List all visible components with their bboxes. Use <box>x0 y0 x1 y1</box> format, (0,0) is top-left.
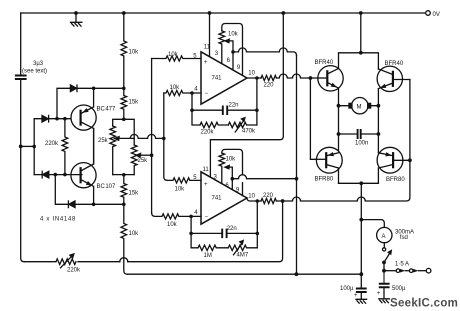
wire left wiper to U1 pin4 vertical <box>164 93 168 180</box>
svg-text:11: 11 <box>204 44 211 50</box>
fuse and connectors 1.5A <box>384 270 396 272</box>
node chain junction <box>122 87 126 91</box>
svg-text:+: + <box>354 293 358 299</box>
wire feedback 220k bottom line <box>24 201 282 262</box>
ground right <box>379 299 390 303</box>
node U1 pin4 junction <box>190 91 194 95</box>
ammeter A <box>377 227 392 242</box>
transistor Q6 BFR80 right <box>377 147 403 173</box>
wire negative rail bottom <box>127 273 361 275</box>
wire bias column vertical <box>33 119 35 175</box>
potentiometer VR1 25k left <box>110 126 116 175</box>
node feedback junctions <box>255 76 259 112</box>
svg-text:−: − <box>205 91 209 97</box>
wire U1 pin11 supply <box>209 13 211 57</box>
resistor R1M U2 feedback <box>198 245 228 250</box>
wire pot bracket bottom <box>113 174 135 176</box>
wire ammeter branch <box>361 220 384 228</box>
node emitter-diode junction <box>92 87 96 91</box>
wire left rail upper <box>20 13 22 74</box>
svg-text:220: 220 <box>264 83 275 89</box>
node right wiper junction <box>150 153 154 157</box>
svg-text:100µ: 100µ <box>340 286 354 292</box>
svg-text:100n: 100n <box>355 140 368 146</box>
resistor R220k U1 feedback <box>200 122 228 127</box>
terminal output <box>426 268 431 273</box>
svg-text:4 x IN4148: 4 x IN4148 <box>40 216 76 222</box>
wire U1 feedback left vertical <box>192 93 200 125</box>
svg-text:−: − <box>205 215 209 221</box>
capacitor C4 100n motor <box>339 133 379 135</box>
wire left rail lower <box>21 80 25 262</box>
node bridge left base junction <box>309 76 313 80</box>
wire U1 wiper line to V- <box>233 48 297 56</box>
wire left pot wiper line <box>130 134 164 138</box>
wire V- vertical <box>296 55 298 274</box>
svg-text:11: 11 <box>203 167 210 173</box>
svg-text:(see text): (see text) <box>22 68 47 74</box>
diode D1 <box>42 115 48 122</box>
resistor R220k bias <box>62 119 68 175</box>
node bridge top junction <box>359 51 363 55</box>
resistor R10k U2 -input <box>152 213 201 219</box>
node bridge bottom junction <box>359 181 363 185</box>
resistor R15k lower <box>121 175 127 205</box>
svg-text:BC 107: BC 107 <box>97 184 117 190</box>
wire U2 offset wiper <box>229 167 232 179</box>
wire U2 pin6 <box>231 179 233 190</box>
node ammeter branch junction <box>359 218 363 222</box>
capacitor C6 500u <box>380 271 389 288</box>
svg-text:9: 9 <box>237 65 241 71</box>
svg-text:10k: 10k <box>129 50 140 56</box>
svg-text:10k: 10k <box>226 157 237 163</box>
svg-text:10k: 10k <box>228 32 239 38</box>
ground top <box>71 13 82 26</box>
node top rail junction dots <box>74 11 363 15</box>
svg-text:220: 220 <box>263 193 274 199</box>
node U1 feedback mid junction <box>190 108 194 112</box>
potentiometer VR2 25k right <box>131 145 137 175</box>
node negative rail junction <box>295 272 299 276</box>
node left wiper junction <box>162 137 166 141</box>
wire U2 feedback right vertical <box>256 201 258 248</box>
svg-text:3µ3: 3µ3 <box>33 61 44 67</box>
wire pot bracket top <box>113 119 135 145</box>
node bias column junction <box>32 145 36 149</box>
svg-text:741: 741 <box>212 196 223 202</box>
svg-text:fsd: fsd <box>400 235 408 241</box>
node U2 feedback junctions <box>255 199 259 235</box>
wire hop over chain <box>120 258 128 262</box>
wire BC107 base row <box>34 174 82 176</box>
wire bridge bottom to supply <box>360 183 362 287</box>
diode D4 <box>69 201 75 208</box>
wire to chain junction <box>94 203 124 205</box>
node cap rail dots <box>337 132 381 136</box>
wire right wiper to U1 pin5 vertical <box>151 59 153 213</box>
node motor rail dots <box>337 104 381 108</box>
svg-text:3: 3 <box>214 175 218 181</box>
potentiometer VR5 10k offset U1 <box>222 24 243 75</box>
terminal 0V <box>426 11 431 16</box>
svg-text:BFR40: BFR40 <box>385 61 404 67</box>
motor M <box>352 98 368 114</box>
wire U1 offset wiper <box>229 41 233 52</box>
node wiper to V- junction <box>295 177 299 181</box>
svg-text:741: 741 <box>212 76 223 82</box>
svg-text:BC 477: BC 477 <box>97 107 117 113</box>
diode D3 <box>43 171 49 178</box>
wire to divider chain <box>94 87 124 89</box>
svg-text:0V: 0V <box>433 12 440 18</box>
wire D4 to emitter node <box>75 203 94 205</box>
resistor R220 U1 output <box>261 75 276 80</box>
ground left <box>356 299 367 303</box>
svg-text:4M7: 4M7 <box>237 253 249 259</box>
resistor R10k chain top <box>121 13 127 88</box>
wire emitter diode branch <box>55 175 68 205</box>
node negative rail right junction <box>359 272 363 276</box>
capacitor C2 22n U1 <box>192 109 257 111</box>
svg-text:10k: 10k <box>168 52 179 58</box>
node bracket top junction <box>122 118 126 122</box>
node chain emitter junction <box>122 203 126 207</box>
wire U1 output row <box>247 74 318 78</box>
wire left rail mid <box>338 106 340 153</box>
svg-text:3: 3 <box>215 51 219 57</box>
wire U1 feedback right vertical <box>256 78 258 125</box>
potentiometer VR3 220k <box>56 255 76 267</box>
wire D2 to emitter node <box>77 87 94 89</box>
svg-text:470k: 470k <box>242 129 256 135</box>
resistor R15k upper <box>121 88 127 119</box>
capacitor C3 22n U2 <box>191 232 257 234</box>
svg-text:220k: 220k <box>201 129 215 135</box>
wire BC477 base row <box>34 118 82 120</box>
svg-text:1·5 A: 1·5 A <box>395 261 409 267</box>
svg-text:+: + <box>204 182 208 188</box>
op-amp U2 741 <box>201 172 247 224</box>
node chain top dot <box>122 11 126 15</box>
wire bridge top bracket <box>339 53 379 69</box>
wire left bases vertical <box>310 78 316 159</box>
svg-text:6: 6 <box>227 58 231 64</box>
svg-text:500µ: 500µ <box>392 286 406 292</box>
wire rail to bias column <box>21 145 35 147</box>
potentiometer VR7 10k offset U2 <box>222 149 243 195</box>
svg-text:220k: 220k <box>45 141 59 147</box>
transistor Q3 BFR40 left <box>318 66 343 91</box>
node switch junction <box>382 269 386 273</box>
svg-text:15k: 15k <box>129 191 140 197</box>
wire U2 wiper line to V- <box>232 175 296 179</box>
wire U1 pin6 <box>232 52 234 69</box>
svg-text:220k: 220k <box>67 268 81 274</box>
resistor R10k U1 -input <box>164 90 201 95</box>
svg-text:10: 10 <box>248 193 255 199</box>
node bracket bottom junction <box>122 173 126 177</box>
svg-text:A: A <box>382 234 386 240</box>
node U2 wiper junction <box>231 177 235 181</box>
op-amp U1 741 <box>201 52 247 104</box>
wire right rail mid <box>377 106 379 153</box>
potentiometer VR6 4M7 <box>228 243 257 255</box>
svg-text:25k: 25k <box>98 138 109 144</box>
svg-text:BFR80: BFR80 <box>315 176 334 182</box>
node left rail junction <box>19 145 23 149</box>
node U2 output to 220k branch <box>281 199 285 203</box>
switch S1 <box>383 243 385 248</box>
capacitor C5 100u <box>357 289 366 293</box>
wire emitter-diode branch vertical <box>57 88 70 118</box>
wire bridge supply from 0V <box>360 13 362 53</box>
wire 0V to U2 pin11 vertical <box>210 13 283 177</box>
resistor R10k chain bottom <box>121 204 127 274</box>
svg-text:4: 4 <box>194 87 198 93</box>
diode D2 <box>70 85 76 92</box>
svg-text:9: 9 <box>236 188 240 194</box>
svg-text:10k: 10k <box>170 85 181 91</box>
node emitter junction <box>92 203 96 207</box>
svg-text:22n: 22n <box>229 103 239 109</box>
resistor R10k U2 +input <box>167 178 201 183</box>
node U2 pin4 junction <box>189 215 193 219</box>
resistor R10k U1 +input <box>152 56 201 61</box>
node right base junction <box>408 158 412 162</box>
transistor Q4 BFR40 right <box>377 66 402 91</box>
svg-text:M: M <box>357 104 362 110</box>
wire U2 feedback left vertical <box>191 216 198 247</box>
svg-text:BFR40: BFR40 <box>315 60 334 66</box>
svg-text:BFR80: BFR80 <box>386 177 405 183</box>
svg-text:15k: 15k <box>129 100 140 106</box>
svg-text:10: 10 <box>248 70 255 76</box>
svg-text:1M: 1M <box>204 253 212 259</box>
svg-text:10k: 10k <box>175 187 186 193</box>
transistor Q2 BC107 <box>71 163 96 188</box>
capacitor C1 3u3 <box>16 76 26 80</box>
svg-text:4: 4 <box>194 210 198 216</box>
transistor Q1 BC477 <box>71 105 96 130</box>
node base row junctions <box>54 173 67 177</box>
node U2 feedback mid junction <box>189 232 193 236</box>
resistor R220 U2 output <box>261 198 276 203</box>
svg-text:+: + <box>377 291 381 297</box>
node D1-row junctions <box>55 117 67 121</box>
svg-text:SeekIC.com: SeekIC.com <box>390 297 458 309</box>
transistor Q5 BFR80 left <box>316 147 342 173</box>
svg-text:25k: 25k <box>138 158 149 164</box>
svg-text:22n: 22n <box>227 226 237 232</box>
svg-text:10k: 10k <box>167 222 178 228</box>
svg-text:+: + <box>204 60 208 66</box>
wire U2 output row <box>247 80 410 202</box>
potentiometer VR4 470k <box>228 120 257 132</box>
svg-text:10k: 10k <box>129 231 140 237</box>
wire top 0V rail <box>21 12 426 14</box>
node U1 wiper junction <box>231 50 235 54</box>
wire bridge bottom bracket <box>339 182 379 184</box>
